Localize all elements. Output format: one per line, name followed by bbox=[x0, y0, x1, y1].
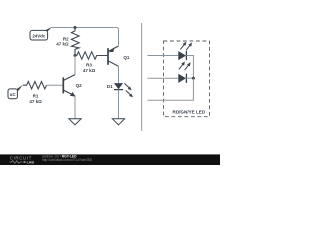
net label uC bbox=[8, 85, 23, 99]
LED LED1 bbox=[178, 42, 192, 61]
svg-text:Q1: Q1 bbox=[123, 55, 130, 60]
wire Q2 emitter to ground bbox=[74, 96, 76, 119]
wire LED bus return bbox=[148, 78, 194, 100]
svg-text:47 kΩ: 47 kΩ bbox=[56, 42, 69, 47]
svg-text:47 kΩ: 47 kΩ bbox=[29, 99, 42, 104]
node LED bus junction bbox=[192, 77, 195, 80]
svg-text:47 kΩ: 47 kΩ bbox=[83, 68, 96, 73]
transistor Q1 (PNP) bbox=[108, 46, 130, 66]
ground (D1) bbox=[112, 119, 124, 125]
resistor R3 47k bbox=[75, 52, 107, 59]
wire D1 cathode to ground bbox=[118, 90, 120, 119]
wire 24V top rail bbox=[52, 28, 119, 46]
svg-text:Q2: Q2 bbox=[76, 83, 83, 88]
wire cropped vertical net at right bbox=[141, 23, 143, 131]
ground (Q2) bbox=[69, 119, 81, 125]
svg-text:RD/GN/YE LED: RD/GN/YE LED bbox=[173, 110, 206, 115]
footer watermark bar bbox=[0, 154, 220, 165]
LED LED2 bbox=[178, 61, 190, 83]
wire LED2 anode bbox=[148, 77, 179, 79]
svg-text:http://circuitlab.com/c/f71z7n: http://circuitlab.com/c/f71z7nde3E8 bbox=[42, 158, 92, 162]
transistor Q2 (NPN) bbox=[63, 75, 82, 97]
wire LED1 cathode to bus bbox=[186, 56, 193, 79]
net label 24Vdc bbox=[30, 27, 52, 40]
wire Q1 collector to D1 bbox=[118, 66, 120, 83]
LED module dashed enclosure bbox=[164, 41, 210, 117]
svg-text:uC: uC bbox=[10, 92, 17, 97]
wire Q2 collector to R2/R3 junction bbox=[74, 56, 76, 75]
resistor R1 47k bbox=[23, 82, 47, 89]
svg-text:24Vdc: 24Vdc bbox=[32, 33, 45, 38]
svg-text:LAB: LAB bbox=[27, 161, 35, 165]
LED D1 bbox=[107, 83, 133, 97]
svg-text:D1: D1 bbox=[107, 84, 113, 89]
wire LED2 cathode to bus bbox=[186, 77, 193, 79]
node R2/R3 junction bbox=[74, 54, 77, 57]
wire R1 to Q2 base bbox=[47, 84, 63, 86]
node 24V rail / R2 junction bbox=[74, 26, 77, 29]
wire LED1 anode bbox=[148, 55, 179, 57]
resistor R2 47k bbox=[71, 28, 79, 56]
